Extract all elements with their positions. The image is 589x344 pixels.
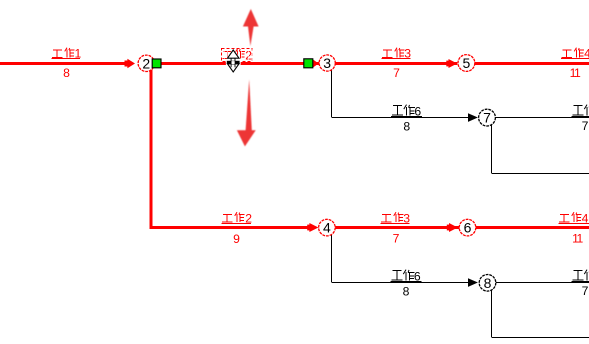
- svg-text:4: 4: [323, 220, 331, 236]
- svg-text:7: 7: [582, 284, 589, 298]
- wire: vertical black line from node 4 down: [331, 235, 333, 282]
- node 5: [458, 55, 475, 72]
- arrowhead into node 6: [447, 223, 458, 232]
- label 工作2 / 9: [222, 212, 253, 247]
- label 工作3 / 7 (bottom): [381, 212, 411, 246]
- cursor body: [227, 50, 240, 72]
- wire: black line from node 7 to right edge: [496, 117, 589, 119]
- wire: bottom main red line from corner to node 4: [150, 226, 311, 229]
- wire: vertical black line from node 8 down: [491, 290, 493, 337]
- node 8: [479, 275, 496, 292]
- node 7: [479, 109, 496, 126]
- wire: horizontal black line to node 7: [332, 117, 469, 119]
- svg-text:5: 5: [463, 55, 471, 71]
- label 工作4 / 11 (bottom right, clipped): [559, 212, 589, 246]
- svg-text:8: 8: [63, 66, 70, 80]
- node 3: [319, 55, 335, 71]
- arrowhead into node 7: [468, 113, 478, 122]
- label 工作6 / 8 (top): [391, 105, 422, 134]
- white gap before node 5: [457, 61, 458, 65]
- svg-text:11: 11: [572, 232, 583, 246]
- red drag arrow down: [237, 80, 256, 147]
- green handle before node 3: [304, 59, 313, 68]
- svg-text:7: 7: [393, 66, 400, 80]
- wire: vertical black line from node 7 down: [491, 125, 493, 173]
- ghost text 工作2 (dashed): [223, 49, 253, 63]
- red drag arrow up: [243, 9, 259, 46]
- node 6: [459, 219, 476, 236]
- white gap before node 2: [135, 61, 138, 65]
- wire: horizontal black line from corner to right edge (top): [492, 173, 589, 175]
- node 2: [138, 55, 154, 71]
- ghost dashed rectangle: [222, 49, 253, 62]
- svg-text:2: 2: [142, 55, 150, 71]
- svg-text:7: 7: [393, 232, 400, 246]
- svg-text:8: 8: [484, 275, 492, 291]
- wire: top main line from node 2 through handle to right edge: [154, 62, 589, 65]
- label 工作? / 7 (top right, clipped): [572, 105, 589, 133]
- svg-text:6: 6: [464, 220, 472, 236]
- wire: horizontal black line to node 8: [332, 282, 469, 284]
- wire: horizontal black line from corner to right edge (bottom): [492, 337, 589, 339]
- svg-text:8: 8: [403, 120, 410, 134]
- svg-text:8: 8: [403, 285, 410, 299]
- svg-text:3: 3: [323, 55, 331, 71]
- label 工作6 / 8 (bottom): [391, 270, 422, 299]
- label 工作? / 7 (bottom right, clipped): [572, 270, 589, 298]
- label 工作1 / 8: [52, 47, 82, 81]
- label 工作4 / 11 (top right, clipped): [561, 47, 589, 81]
- label 工作3 / 7 (top): [382, 47, 412, 81]
- wire: vertical red line from node 2 down: [150, 68, 153, 230]
- svg-text:9: 9: [233, 232, 240, 246]
- arrowhead into node 3: [312, 59, 318, 68]
- wire: top main activity line (segment from left edge to arrowhead at node 2): [0, 62, 128, 65]
- arrowhead into node 5: [446, 59, 457, 68]
- svg-text:7: 7: [483, 110, 491, 126]
- ghost dither stripes: [224, 50, 252, 62]
- wire: bottom main red line from node 4 to right edge: [335, 226, 589, 229]
- arrowhead into node 8: [468, 278, 478, 287]
- wire: black line from node 8 to right edge: [496, 282, 589, 284]
- cursor white halo: [227, 50, 240, 72]
- arrowhead into node 2: [125, 59, 136, 68]
- arrowhead into node 4: [307, 223, 318, 232]
- wire: vertical black line from node 3 down: [331, 70, 333, 117]
- svg-text:11: 11: [570, 66, 581, 80]
- svg-text:7: 7: [582, 119, 589, 133]
- node 4: [319, 219, 336, 236]
- green handle at node 2: [152, 59, 161, 68]
